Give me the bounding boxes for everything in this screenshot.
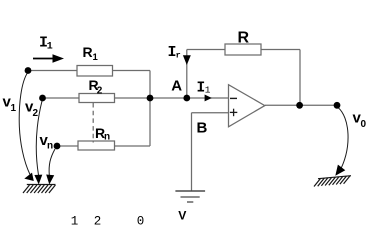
svg-text:2: 2 <box>94 215 102 229</box>
svg-text:n: n <box>104 132 110 143</box>
svg-text:1: 1 <box>11 103 17 114</box>
svg-text:R: R <box>83 44 93 60</box>
svg-text:r: r <box>176 51 181 61</box>
svg-text:0: 0 <box>137 215 145 229</box>
svg-text:1: 1 <box>71 215 79 229</box>
svg-text:2: 2 <box>97 85 103 96</box>
svg-text:1: 1 <box>93 52 99 63</box>
svg-text:0: 0 <box>361 119 367 130</box>
svg-text:V: V <box>178 209 187 223</box>
svg-text:A: A <box>171 77 182 94</box>
svg-text:B: B <box>197 119 208 136</box>
svg-text:R: R <box>238 29 250 46</box>
svg-text:n: n <box>47 141 53 152</box>
svg-text:1: 1 <box>205 84 211 95</box>
svg-text:2: 2 <box>33 108 39 119</box>
svg-text:1: 1 <box>47 42 53 53</box>
